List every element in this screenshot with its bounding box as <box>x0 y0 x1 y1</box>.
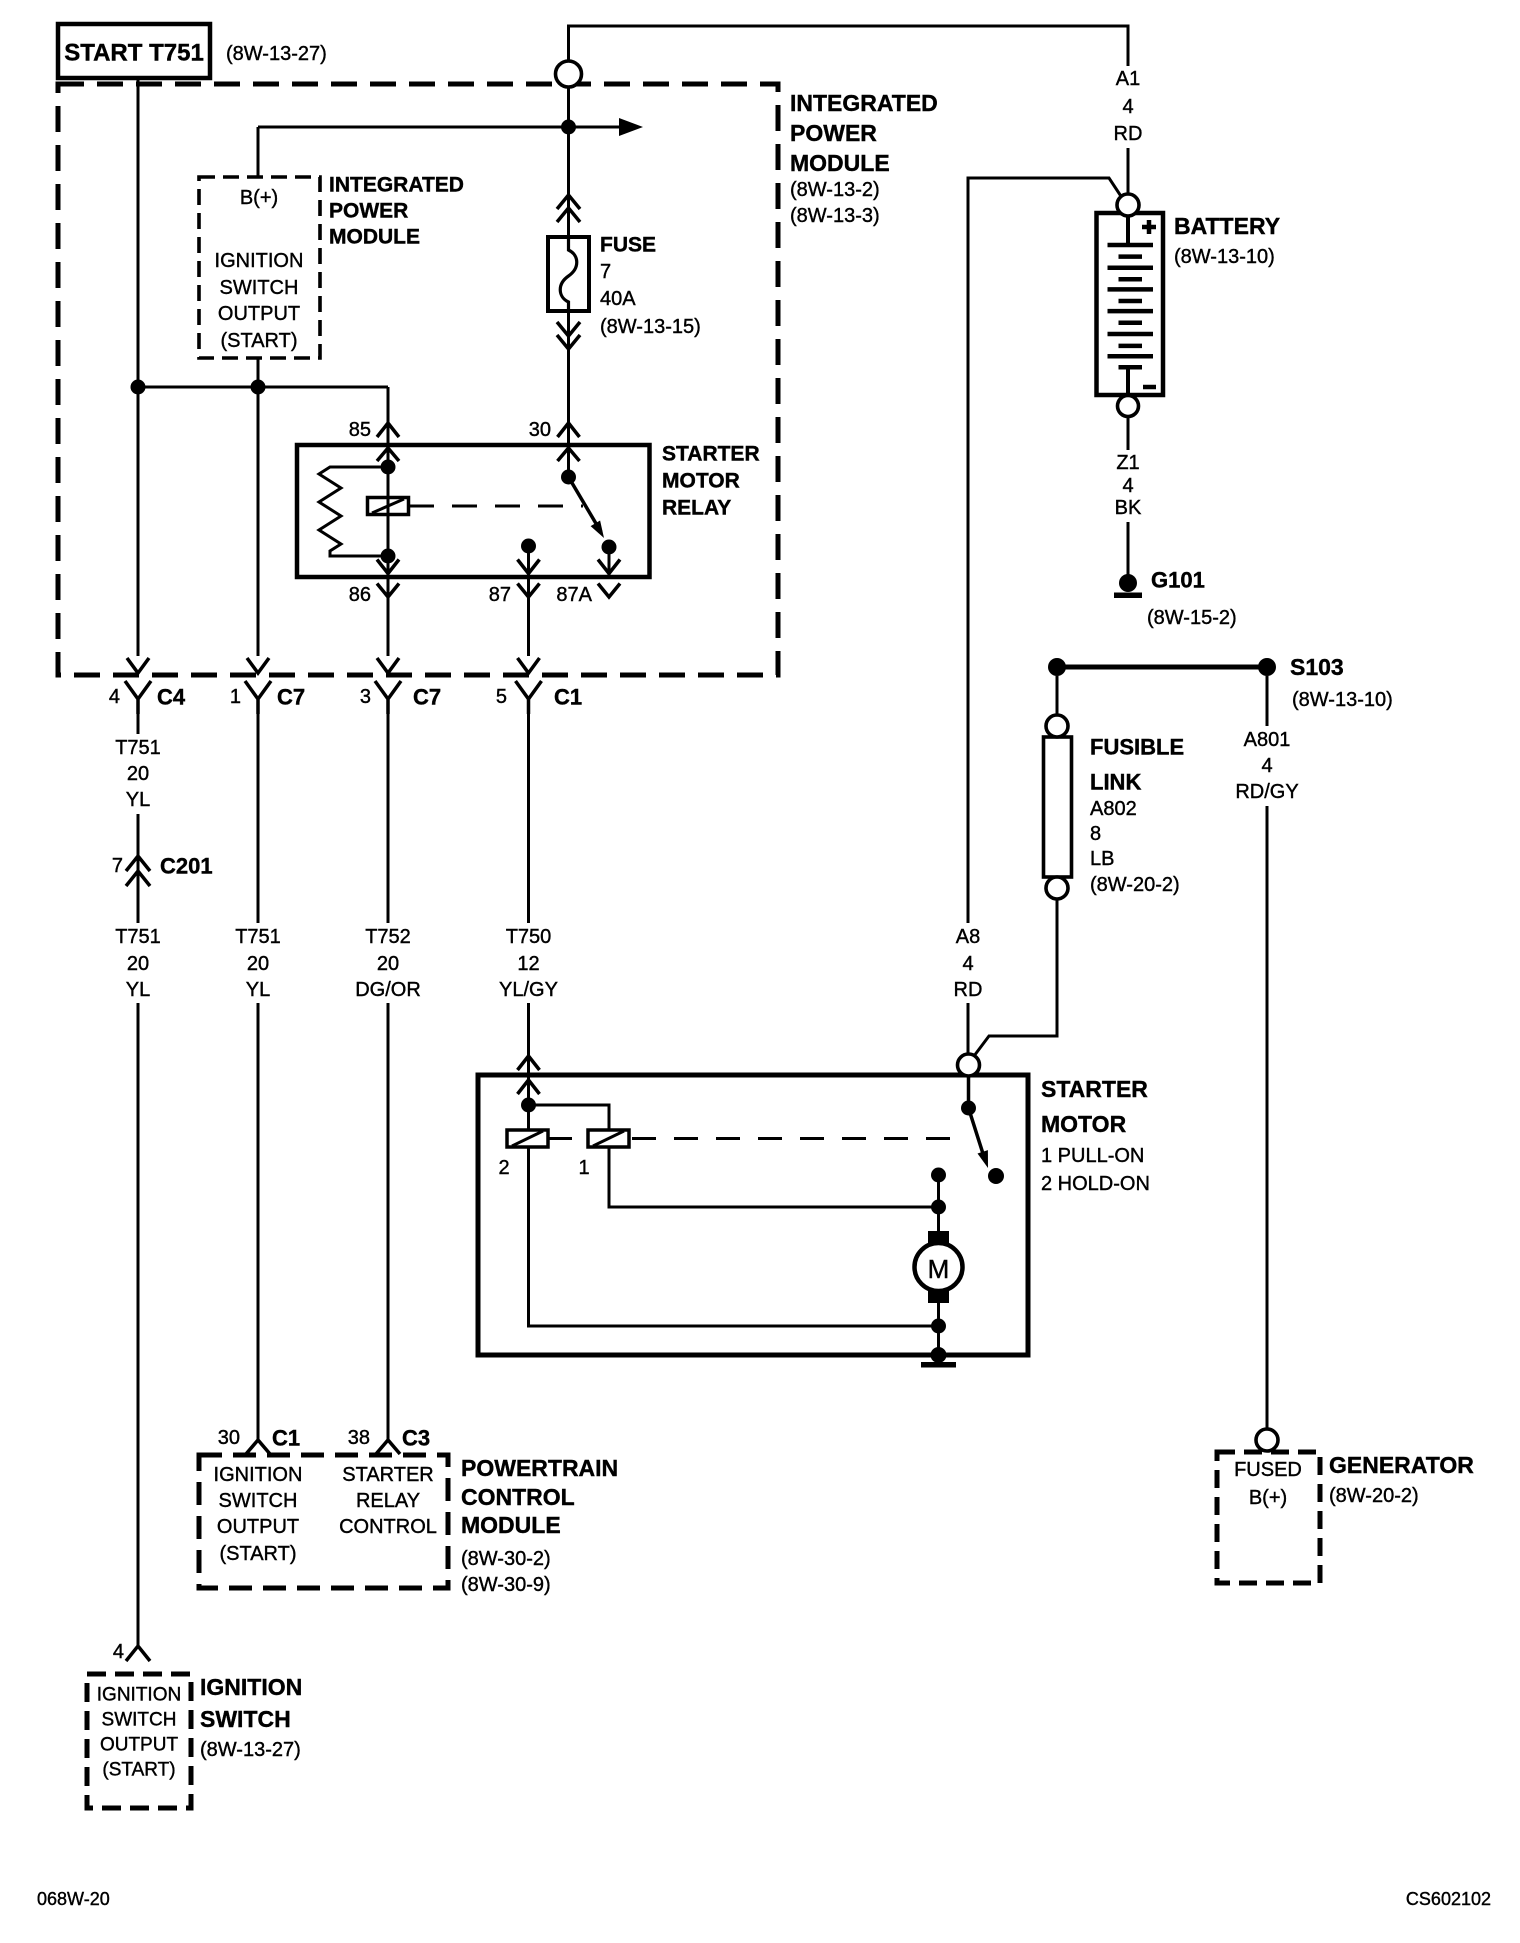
svg-text:38: 38 <box>348 1427 370 1449</box>
svg-text:OUTPUT: OUTPUT <box>217 1516 299 1538</box>
svg-text:OUTPUT: OUTPUT <box>100 1735 179 1756</box>
fusible link bottom terminal circle <box>1046 877 1068 899</box>
svg-text:7: 7 <box>112 855 123 877</box>
svg-text:4: 4 <box>1122 475 1133 497</box>
arrowhead on B(+) branch <box>619 118 643 136</box>
svg-text:4: 4 <box>1122 96 1133 118</box>
svg-text:MODULE: MODULE <box>329 226 420 249</box>
svg-text:40A: 40A <box>600 288 636 310</box>
wire: column 4 relay pin 87 to IPM bottom <box>527 546 530 656</box>
svg-text:(8W-30-2): (8W-30-2) <box>461 1548 551 1570</box>
svg-text:7: 7 <box>600 261 611 283</box>
connector C4 exit arrow at IPM bottom <box>127 658 149 673</box>
node junction dot starter motor feed top <box>931 1168 946 1183</box>
svg-text:SWITCH: SWITCH <box>219 1490 298 1512</box>
svg-text:4: 4 <box>113 1641 124 1663</box>
node junction dot relay pin87A <box>602 540 617 555</box>
wire: battery positive feed to starter motor A8 <box>968 178 1122 1054</box>
svg-text:(8W-13-15): (8W-13-15) <box>600 316 701 338</box>
svg-text:SWITCH: SWITCH <box>200 1706 291 1732</box>
wire: column 2 below C7 to PCM pin 30 <box>257 714 260 1440</box>
wire: column 3 below C7 to PCM pin 38 <box>387 714 390 1440</box>
integrated power module dashed outline <box>58 84 778 675</box>
svg-text:POWER: POWER <box>790 120 877 146</box>
wire: starter internal feed from C1 <box>527 1102 530 1130</box>
node junction dot relay contact pivot <box>561 470 576 485</box>
wire: relay coil vertical pin85 to pin86 <box>387 467 390 556</box>
svg-text:20: 20 <box>247 953 269 975</box>
svg-text:(START): (START) <box>102 1760 175 1781</box>
connector C201 double chevron <box>126 856 150 886</box>
svg-text:T751: T751 <box>115 737 161 759</box>
svg-text:2: 2 <box>498 1157 509 1179</box>
starter pull-on coil 1 <box>588 1130 629 1147</box>
battery plates <box>1108 245 1154 356</box>
svg-text:5: 5 <box>496 686 507 708</box>
relay pin 87A terminal chevrons <box>598 560 620 598</box>
node junction dot column1 <box>131 380 146 395</box>
svg-text:A801: A801 <box>1244 729 1291 751</box>
svg-text:POWERTRAIN: POWERTRAIN <box>461 1455 618 1481</box>
wire: down to relay pin 85 <box>387 387 390 467</box>
in-line connector chevrons below fuse <box>557 322 580 349</box>
wire: coil 1 to motor junction <box>609 1147 939 1207</box>
motor M armature circle <box>915 1243 963 1291</box>
svg-text:OUTPUT: OUTPUT <box>218 303 300 325</box>
wire: motor feed vertical <box>937 1175 940 1233</box>
svg-text:C1: C1 <box>554 685 582 710</box>
svg-text:1: 1 <box>230 686 241 708</box>
svg-text:A802: A802 <box>1090 798 1137 820</box>
svg-text:FUSE: FUSE <box>600 234 656 257</box>
wire A801 S103 to generator <box>1266 676 1269 1429</box>
battery minus terminal mark <box>1143 385 1156 390</box>
starter motor terminal chevrons at box entry <box>518 1056 540 1094</box>
wire: coil 2 to motor return <box>529 1147 939 1326</box>
starter motor B+ stud terminal circle <box>958 1054 980 1076</box>
svg-text:CONTROL: CONTROL <box>339 1516 437 1538</box>
svg-text:87A: 87A <box>556 584 592 606</box>
wire: B(+) down into inner box <box>257 127 260 177</box>
fuse F7 element curve <box>560 239 577 309</box>
node START T751 title box <box>58 24 210 78</box>
battery plus terminal mark <box>1142 220 1156 234</box>
node S103 left junction dot <box>1048 658 1066 676</box>
fusible link top terminal circle <box>1046 715 1068 737</box>
connector C1 pin5 exit arrow at IPM bottom <box>518 658 540 673</box>
svg-text:SWITCH: SWITCH <box>220 277 299 299</box>
svg-text:(8W-15-2): (8W-15-2) <box>1147 607 1237 629</box>
wire: column 2 junction down to IPM bottom <box>257 387 260 656</box>
wire: S103 to fusible link and starter <box>974 676 1057 1056</box>
node junction dot at fuse feed <box>561 120 576 135</box>
node junction dot relay pin87 <box>521 539 536 554</box>
svg-text:M: M <box>928 1254 950 1284</box>
starter motor M1 outline <box>478 1075 1028 1355</box>
svg-text:BATTERY: BATTERY <box>1174 213 1280 239</box>
wire: junction horizontal to relay pin 85 <box>138 386 388 389</box>
node junction dot starter coil feed <box>521 1098 536 1113</box>
svg-text:30: 30 <box>529 419 551 441</box>
motor brush terminal bottom <box>928 1289 949 1303</box>
svg-text:87: 87 <box>489 584 511 606</box>
generator output terminal circle <box>1256 1429 1278 1451</box>
svg-text:(8W-13-2): (8W-13-2) <box>790 179 880 201</box>
battery B1 outline <box>1097 213 1164 395</box>
connector C7 pin3 socket symbol <box>375 681 401 714</box>
svg-text:YL: YL <box>246 979 270 1001</box>
svg-text:(8W-20-2): (8W-20-2) <box>1090 874 1180 896</box>
wire: relay pin 87A stub <box>608 547 611 576</box>
relay coil K1 <box>368 498 409 515</box>
wire Z1 battery negative to ground <box>1127 416 1130 575</box>
svg-text:(8W-13-3): (8W-13-3) <box>790 205 880 227</box>
battery positive terminal circle <box>1117 194 1139 216</box>
svg-text:T752: T752 <box>365 926 411 948</box>
IPM ignition switch output (start) inner dashed box <box>199 177 320 358</box>
starter case ground bar <box>921 1362 956 1368</box>
svg-text:86: 86 <box>349 584 371 606</box>
svg-text:C201: C201 <box>160 854 213 879</box>
svg-text:30: 30 <box>218 1427 240 1449</box>
svg-text:MOTOR: MOTOR <box>662 470 740 493</box>
svg-text:20: 20 <box>377 953 399 975</box>
svg-text:FUSED: FUSED <box>1234 1459 1302 1481</box>
splice S103 bus <box>1057 665 1267 670</box>
svg-text:FUSIBLE: FUSIBLE <box>1090 735 1184 760</box>
svg-text:INTEGRATED: INTEGRATED <box>329 174 464 197</box>
svg-text:(8W-13-27): (8W-13-27) <box>226 43 327 65</box>
wire: inner box to junction <box>257 358 260 387</box>
svg-text:MOTOR: MOTOR <box>1041 1111 1127 1137</box>
connector C4 socket symbol <box>125 681 151 714</box>
mechanical link dashed relay coil to contact <box>409 505 583 508</box>
svg-text:4: 4 <box>962 953 973 975</box>
svg-text:IGNITION: IGNITION <box>215 250 304 272</box>
generator dashed outline <box>1217 1452 1320 1583</box>
wire: top bus from IPM to battery A1 <box>569 26 1129 196</box>
svg-text:START T751: START T751 <box>64 40 204 67</box>
svg-text:MODULE: MODULE <box>461 1512 561 1538</box>
relay pin 30 terminal chevrons <box>558 423 580 461</box>
connector C3 pin38 lambda at PCM <box>376 1440 400 1454</box>
resistor R1 relay suppression resistor <box>319 467 388 556</box>
svg-text:IGNITION: IGNITION <box>97 1685 181 1706</box>
svg-text:RD/GY: RD/GY <box>1235 781 1298 803</box>
svg-text:C7: C7 <box>413 685 441 710</box>
svg-text:BK: BK <box>1115 497 1142 519</box>
svg-text:4: 4 <box>1261 755 1272 777</box>
node junction dot starter motor return <box>931 1319 946 1334</box>
svg-text:B(+): B(+) <box>240 187 278 209</box>
svg-text:STARTER: STARTER <box>662 443 760 466</box>
svg-text:(8W-13-27): (8W-13-27) <box>200 1739 301 1761</box>
starter switch contact arm <box>969 1076 986 1160</box>
ground G101 symbol <box>1119 574 1137 592</box>
svg-text:RELAY: RELAY <box>356 1490 420 1512</box>
node junction dot starter coil1 to motor <box>931 1200 946 1215</box>
svg-text:068W-20: 068W-20 <box>37 1889 110 1909</box>
battery negative terminal circle <box>1118 396 1139 417</box>
svg-text:8: 8 <box>1090 823 1101 845</box>
wire: column 3 relay pin 86 to IPM bottom <box>387 556 390 656</box>
wire: column 1 below C4 to ignition switch <box>137 714 140 1646</box>
mechanical link dashed starter solenoid to contact <box>548 1137 958 1140</box>
fuse F7 body <box>548 237 589 311</box>
svg-text:T751: T751 <box>235 926 281 948</box>
svg-text:LINK: LINK <box>1090 770 1141 795</box>
wire: fuse feed down through fuse to relay pin 30 <box>567 87 570 477</box>
connector C1 pin5 socket symbol <box>516 681 542 714</box>
svg-text:(8W-30-9): (8W-30-9) <box>461 1574 551 1596</box>
connector C7 pin1 socket symbol <box>245 681 271 714</box>
svg-text:INTEGRATED: INTEGRATED <box>790 90 938 116</box>
svg-text:RD: RD <box>1114 123 1143 145</box>
wire label backing masks <box>1102 66 1154 148</box>
svg-text:85: 85 <box>349 419 371 441</box>
svg-text:A8: A8 <box>956 926 980 948</box>
ignition switch dashed outline <box>87 1674 191 1808</box>
motor brush terminal top <box>928 1231 949 1245</box>
node junction dot relay coil top <box>381 460 396 475</box>
svg-text:YL: YL <box>126 789 150 811</box>
wire: column 4 below C1 to starter motor <box>527 714 530 1102</box>
svg-text:C4: C4 <box>157 685 186 710</box>
svg-text:G101: G101 <box>1151 568 1205 593</box>
svg-text:STARTER: STARTER <box>342 1464 434 1486</box>
in-line connector chevrons above fuse <box>557 195 580 222</box>
svg-text:CONTROL: CONTROL <box>461 1484 575 1510</box>
svg-text:(8W-13-10): (8W-13-10) <box>1174 246 1275 268</box>
relay switch contact arm <box>569 477 602 532</box>
node: wire junction circle at IPM top <box>556 61 582 87</box>
svg-text:20: 20 <box>127 953 149 975</box>
svg-text:S103: S103 <box>1290 654 1344 680</box>
relay U1 starter motor relay outline <box>297 445 650 577</box>
svg-text:RD: RD <box>954 979 983 1001</box>
battery internal stubs <box>1126 215 1130 393</box>
node junction dot starter contact end <box>988 1168 1004 1184</box>
svg-text:(START): (START) <box>219 1543 296 1565</box>
wire: ignition switch output B(+) branch with arrow <box>258 126 619 129</box>
svg-text:(START): (START) <box>220 330 297 352</box>
starter hold-on coil 2 <box>507 1130 548 1147</box>
connector C7 pin1 exit arrow at IPM bottom <box>247 658 269 673</box>
svg-text:(8W-20-2): (8W-20-2) <box>1329 1485 1419 1507</box>
node junction dot column2 <box>251 380 266 395</box>
node junction dot starter case ground <box>931 1347 947 1363</box>
svg-text:T751: T751 <box>115 926 161 948</box>
svg-text:MODULE: MODULE <box>790 150 890 176</box>
svg-text:GENERATOR: GENERATOR <box>1329 1452 1474 1478</box>
svg-text:STARTER: STARTER <box>1041 1076 1148 1102</box>
connector C1 pin30 lambda at PCM <box>246 1440 270 1454</box>
svg-text:2 HOLD-ON: 2 HOLD-ON <box>1041 1173 1150 1195</box>
svg-text:C1: C1 <box>272 1426 300 1451</box>
svg-text:20: 20 <box>127 763 149 785</box>
svg-text:Z1: Z1 <box>1116 452 1139 474</box>
svg-text:YL: YL <box>126 979 150 1001</box>
svg-text:C3: C3 <box>402 1426 430 1451</box>
relay pin 87 terminal chevrons <box>518 560 540 598</box>
svg-text:T750: T750 <box>506 926 552 948</box>
svg-text:3: 3 <box>360 686 371 708</box>
svg-text:IGNITION: IGNITION <box>214 1464 303 1486</box>
svg-text:POWER: POWER <box>329 200 408 223</box>
svg-text:LB: LB <box>1090 848 1114 870</box>
node S103 right junction dot <box>1258 658 1276 676</box>
svg-text:4: 4 <box>109 686 120 708</box>
wire: column 1 START T751 down to IPM bottom <box>137 78 140 656</box>
relay contact arrowhead <box>591 521 604 539</box>
relay pin 85 terminal chevrons <box>377 423 399 461</box>
connector C7 pin3 exit arrow at IPM bottom <box>377 658 399 673</box>
svg-text:1: 1 <box>578 1157 589 1179</box>
svg-text:(8W-13-10): (8W-13-10) <box>1292 689 1393 711</box>
node junction dot starter contact pivot <box>961 1101 976 1116</box>
svg-text:RELAY: RELAY <box>662 497 731 520</box>
wire: branch to pull-in coil 1 <box>529 1105 610 1130</box>
svg-text:12: 12 <box>517 953 539 975</box>
svg-text:1 PULL-ON: 1 PULL-ON <box>1041 1145 1144 1167</box>
svg-text:CS602102: CS602102 <box>1406 1889 1491 1909</box>
connector pin4 lambda at ignition switch <box>126 1646 150 1661</box>
svg-text:A1: A1 <box>1116 68 1140 90</box>
wire: motor to ground <box>937 1300 940 1355</box>
relay pin 86 terminal chevrons <box>377 560 399 598</box>
powertrain control module dashed outline <box>199 1455 448 1588</box>
svg-text:DG/OR: DG/OR <box>355 979 421 1001</box>
svg-text:IGNITION: IGNITION <box>200 1674 302 1700</box>
starter contact arrowhead <box>978 1150 989 1168</box>
svg-text:SWITCH: SWITCH <box>102 1710 177 1731</box>
svg-text:B(+): B(+) <box>1249 1487 1287 1509</box>
svg-text:C7: C7 <box>277 685 305 710</box>
svg-text:YL/GY: YL/GY <box>499 979 558 1001</box>
node junction dot relay coil bottom <box>381 549 396 564</box>
fusible link A802 body <box>1044 737 1072 877</box>
